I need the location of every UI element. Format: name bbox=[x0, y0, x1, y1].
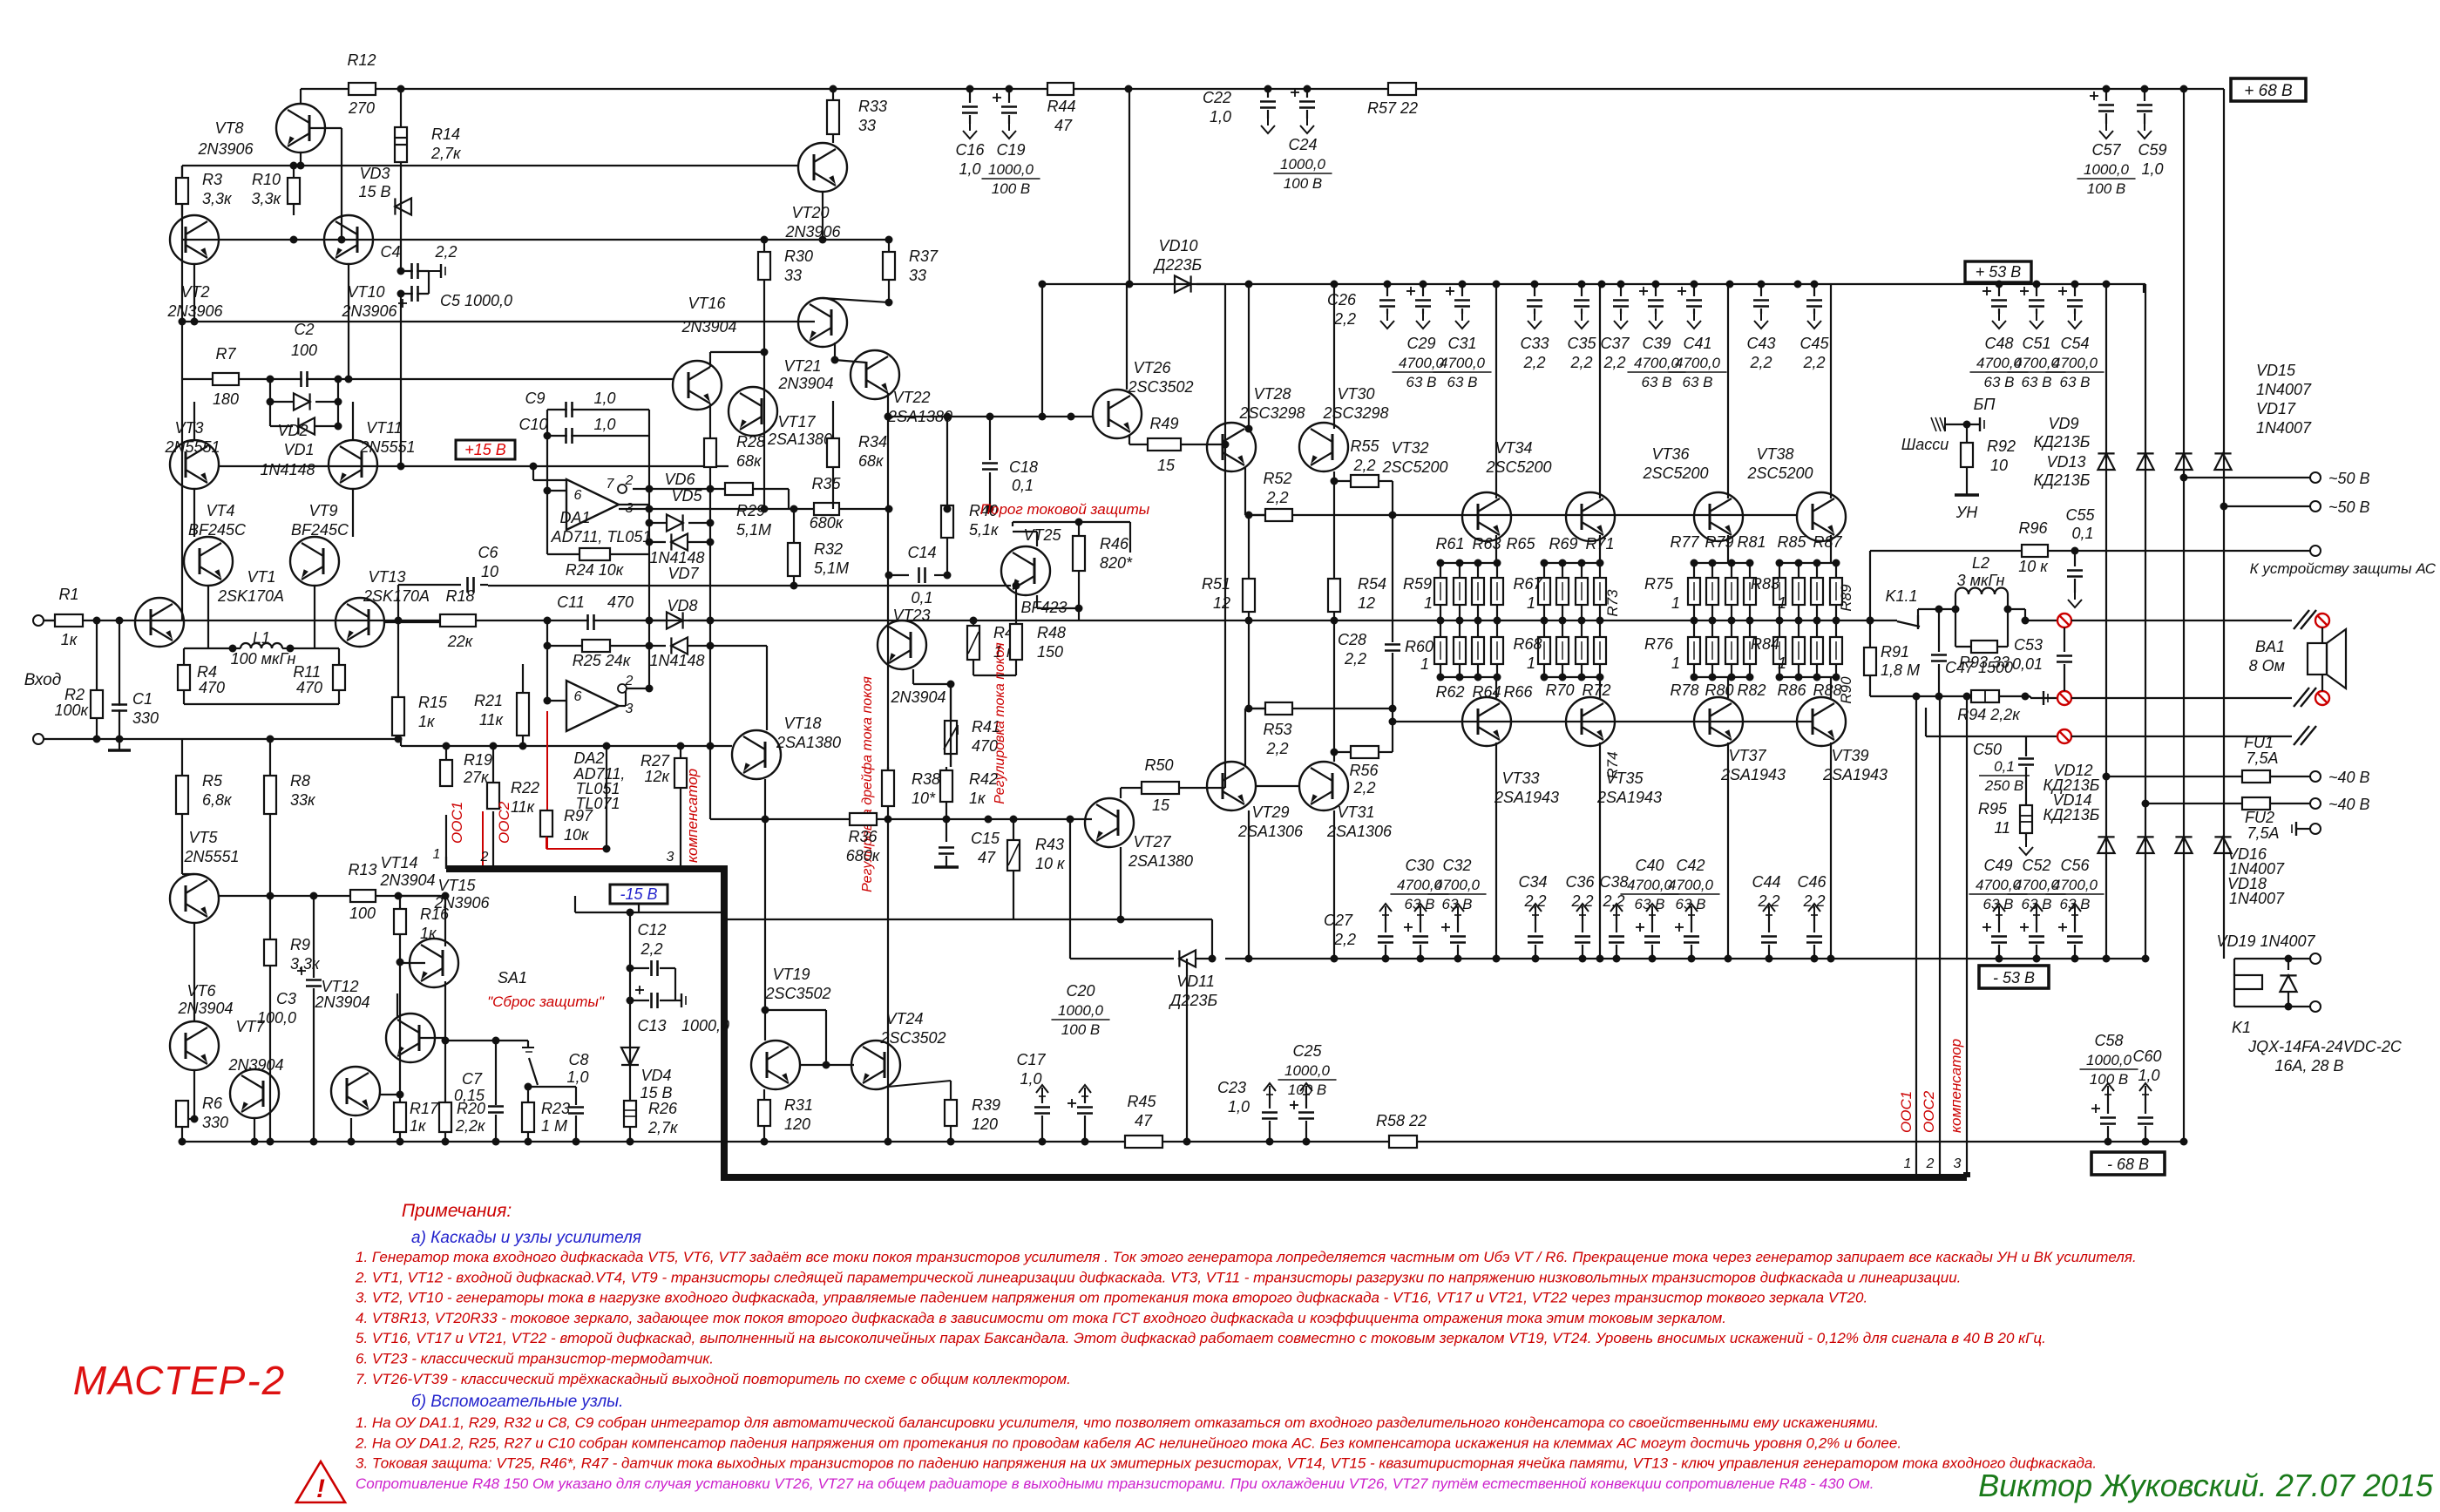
svg-text:C28: C28 bbox=[1338, 631, 1366, 648]
wire x1362 col bbox=[1186, 959, 1188, 1142]
wire x2462 top bbox=[2144, 283, 2145, 285]
transistor VT34 bbox=[1566, 492, 1615, 541]
wire OOC2 right line bbox=[1939, 696, 1941, 1177]
svg-text:R44: R44 bbox=[1047, 98, 1075, 115]
svg-text:1: 1 bbox=[1904, 1156, 1912, 1171]
resistor R96 bbox=[2022, 545, 2048, 557]
svg-text:VD15: VD15 bbox=[2256, 362, 2296, 379]
wire VT18 up bbox=[766, 646, 768, 730]
svg-text:VT7: VT7 bbox=[235, 1018, 265, 1035]
resistor R37 bbox=[888, 240, 890, 252]
svg-text:C41: C41 bbox=[1683, 335, 1711, 352]
svg-text:C35: C35 bbox=[1567, 335, 1596, 352]
svg-text:VD8: VD8 bbox=[667, 597, 697, 614]
svg-text:R4: R4 bbox=[197, 663, 217, 681]
svg-text:27к: 27к bbox=[463, 769, 490, 786]
transistor VT2 bbox=[170, 215, 219, 264]
junction bank 11 bbox=[1746, 559, 1754, 567]
wire VT35 emitter bbox=[1599, 677, 1601, 698]
svg-text:L2: L2 bbox=[1972, 554, 1989, 572]
junction top right bbox=[2180, 85, 2188, 93]
svg-text:VT29: VT29 bbox=[1251, 803, 1289, 821]
red wire R22 bbox=[482, 811, 484, 868]
switch SA1 bbox=[527, 1041, 529, 1047]
resistor bank top 7 bbox=[1599, 563, 1601, 578]
wire R3 to VT2 bbox=[181, 204, 183, 215]
capacitor C20 electrolytic bbox=[1084, 1088, 1086, 1096]
svg-text:C7: C7 bbox=[462, 1070, 483, 1088]
wire VT8 emitter down bbox=[300, 153, 302, 166]
svg-text:а) Каскады и узлы усилителя: а) Каскады и узлы усилителя bbox=[411, 1229, 641, 1247]
resistor R7 bbox=[213, 373, 239, 385]
svg-text:C8: C8 bbox=[568, 1051, 588, 1068]
transistor VT12 bbox=[331, 1067, 380, 1115]
capacitor C45 bbox=[1813, 284, 1815, 296]
wire VT8 base right bbox=[309, 127, 342, 129]
transistor VT23 bbox=[878, 620, 926, 669]
capacitor C51 electrolytic bbox=[2036, 284, 2037, 296]
wire VT17 down bbox=[763, 440, 765, 509]
svg-text:2SA1943: 2SA1943 bbox=[1822, 766, 1888, 783]
svg-text:330: 330 bbox=[202, 1114, 228, 1131]
svg-text:10: 10 bbox=[1990, 457, 2008, 474]
diode VD-pair lower bbox=[269, 402, 271, 426]
transistor VT16 bbox=[673, 361, 722, 410]
ground input terminal bbox=[33, 734, 44, 744]
svg-text:VT19: VT19 bbox=[772, 966, 810, 983]
resistor bank top 12 bbox=[1779, 563, 1780, 578]
svg-text:КД213Б: КД213Б bbox=[2033, 471, 2090, 489]
svg-text:2N3906: 2N3906 bbox=[341, 302, 397, 320]
capacitor C28 bbox=[1392, 515, 1393, 642]
svg-text:VT13: VT13 bbox=[368, 568, 405, 586]
svg-text:1к: 1к bbox=[418, 713, 436, 730]
capacitor C43 bbox=[1760, 284, 1762, 296]
capacitor C30 electrolytic bbox=[1420, 906, 1421, 915]
transistor VT35 bbox=[1566, 697, 1615, 746]
svg-text:R10: R10 bbox=[252, 171, 281, 188]
wire C6 rail y672 bbox=[487, 585, 489, 586]
chassis symbol bbox=[1945, 424, 1967, 425]
svg-text:63 В: 63 В bbox=[2060, 374, 2091, 390]
wire VT9-VT13 link bbox=[314, 586, 315, 648]
label -53V box bbox=[1979, 966, 2049, 988]
resistor R38 bbox=[882, 770, 894, 806]
svg-text:VT25: VT25 bbox=[1023, 526, 1061, 544]
svg-text:2,2: 2,2 bbox=[1570, 892, 1593, 910]
svg-text:2. VT1, VT12 - входной дифкаск: 2. VT1, VT12 - входной дифкаскад.VT4, VT… bbox=[355, 1269, 1961, 1285]
svg-text:1: 1 bbox=[1671, 654, 1680, 672]
transistor VT26 bbox=[1093, 390, 1142, 438]
svg-text:2SC3502: 2SC3502 bbox=[1127, 378, 1193, 396]
resistor R49 bbox=[1128, 435, 1130, 444]
resistor R4 bbox=[183, 648, 185, 665]
wire VT19 emitter bbox=[763, 1089, 765, 1100]
svg-text:120: 120 bbox=[972, 1115, 998, 1133]
svg-text:1N4007: 1N4007 bbox=[2256, 381, 2312, 398]
svg-text:100: 100 bbox=[291, 342, 317, 359]
svg-text:R18: R18 bbox=[445, 587, 474, 605]
wire x1087 col bbox=[946, 417, 948, 505]
svg-text:2,2: 2,2 bbox=[1344, 650, 1366, 668]
transistor VT13 fet bbox=[335, 598, 384, 647]
svg-text:C6: C6 bbox=[478, 544, 498, 561]
svg-text:C34: C34 bbox=[1518, 873, 1547, 891]
svg-text:2,2: 2,2 bbox=[1522, 354, 1545, 371]
resistor R57 bbox=[1388, 83, 1416, 95]
wire R35 right bbox=[839, 508, 889, 510]
svg-text:2SC3502: 2SC3502 bbox=[879, 1029, 945, 1047]
svg-text:1000,0: 1000,0 bbox=[2086, 1052, 2132, 1068]
svg-text:!: ! bbox=[316, 1475, 325, 1503]
wire x745 col bbox=[648, 410, 650, 688]
svg-text:R52: R52 bbox=[1263, 470, 1291, 487]
svg-text:C11: C11 bbox=[557, 593, 585, 611]
transistor VT15 bbox=[386, 1014, 435, 1062]
svg-text:1: 1 bbox=[1424, 594, 1433, 612]
wire VT10 down bbox=[348, 264, 349, 379]
resistor R44 bbox=[1047, 83, 1074, 95]
svg-text:VT38: VT38 bbox=[1756, 445, 1793, 463]
diode VD18b bbox=[2214, 837, 2231, 853]
svg-text:680к: 680к bbox=[810, 514, 844, 532]
svg-text:1000,0: 1000,0 bbox=[681, 1017, 729, 1034]
label +68V box bbox=[2231, 78, 2306, 101]
svg-text:33к: 33к bbox=[290, 791, 316, 809]
label UN bbox=[1966, 467, 1968, 495]
svg-text:R17: R17 bbox=[410, 1100, 439, 1117]
capacitor C2 bbox=[302, 371, 306, 387]
transistor VT17 bbox=[729, 387, 777, 436]
resistor R17 bbox=[394, 1102, 406, 1132]
label OOC1 red vertical bbox=[449, 802, 465, 844]
opamp DA1 bbox=[566, 479, 619, 530]
svg-text:R74: R74 bbox=[1604, 751, 1621, 778]
wire x1391 col bbox=[1211, 919, 1213, 959]
svg-text:2,7к: 2,7к bbox=[647, 1119, 679, 1136]
svg-text:C24: C24 bbox=[1288, 136, 1317, 153]
svg-text:0,15: 0,15 bbox=[454, 1087, 485, 1104]
diode VD4 bbox=[621, 1048, 639, 1065]
svg-text:R38: R38 bbox=[912, 770, 940, 788]
capacitor C5 electrolytic bbox=[401, 293, 429, 295]
red vertical text drift bbox=[860, 676, 875, 892]
wire OOC1 right line bbox=[1915, 696, 1917, 1177]
svg-text:3: 3 bbox=[1954, 1156, 1962, 1171]
wire VT6 down bbox=[193, 1070, 195, 1119]
resistor bank bottom 9 bbox=[1711, 620, 1713, 637]
svg-text:2SC3502: 2SC3502 bbox=[764, 985, 830, 1002]
svg-text:C45: C45 bbox=[1799, 335, 1829, 352]
capacitor C47 bbox=[1938, 609, 1940, 652]
wire +53 to caps bbox=[1245, 281, 1253, 288]
svg-text:3,3к: 3,3к bbox=[202, 190, 233, 207]
svg-text:R34: R34 bbox=[858, 433, 887, 451]
svg-text:VT16: VT16 bbox=[688, 295, 726, 312]
resistor R19 bbox=[445, 746, 447, 760]
wire VT11 up bbox=[352, 402, 354, 440]
svg-text:VT9: VT9 bbox=[308, 502, 337, 519]
svg-text:R26: R26 bbox=[648, 1100, 678, 1117]
svg-text:3,3к: 3,3к bbox=[290, 955, 321, 973]
diode VD-pair upper bbox=[269, 379, 271, 402]
resistor R93 bbox=[1971, 641, 1997, 653]
svg-text:1,0: 1,0 bbox=[593, 416, 615, 433]
svg-text:R32: R32 bbox=[814, 540, 843, 558]
svg-text:R83: R83 bbox=[1751, 575, 1779, 593]
wire VT22 down bbox=[887, 393, 889, 509]
resistor R32 bbox=[793, 509, 795, 543]
svg-text:VT23: VT23 bbox=[892, 607, 930, 624]
svg-text:R12: R12 bbox=[347, 51, 376, 69]
resistor R3 bbox=[181, 166, 183, 178]
svg-text:1. Генератор тока входного диф: 1. Генератор тока входного дифкаскада VT… bbox=[356, 1249, 2137, 1265]
svg-text:330: 330 bbox=[132, 709, 159, 727]
svg-text:1N4148: 1N4148 bbox=[649, 652, 704, 669]
svg-text:1,0: 1,0 bbox=[1020, 1070, 1041, 1088]
svg-text:C3: C3 bbox=[276, 990, 296, 1007]
svg-text:-15 В: -15 В bbox=[620, 885, 657, 903]
svg-text:R63: R63 bbox=[1472, 535, 1501, 553]
svg-text:4700,0: 4700,0 bbox=[1399, 355, 1445, 371]
svg-text:C5 1000,0: C5 1000,0 bbox=[440, 292, 512, 309]
wire emitter res bottom y772b bbox=[1541, 676, 1602, 678]
svg-text:2,2: 2,2 bbox=[640, 940, 662, 958]
ground stub C53 bbox=[2024, 697, 2026, 699]
resistor R45 bbox=[1125, 1136, 1162, 1148]
svg-text:2,2: 2,2 bbox=[1352, 457, 1375, 474]
resistor R95 bbox=[2020, 805, 2032, 833]
wire rail478 bbox=[888, 416, 1093, 417]
ground stub bbox=[119, 739, 120, 749]
diode VD11 bbox=[1069, 819, 1071, 959]
ground terminal right bbox=[2295, 822, 2297, 836]
svg-text:R24 10к: R24 10к bbox=[566, 561, 625, 579]
svg-text:2N3906: 2N3906 bbox=[197, 140, 254, 158]
opamp DA2 bbox=[566, 681, 619, 731]
resistor R34 bbox=[827, 438, 839, 467]
svg-text:0,01: 0,01 bbox=[2012, 655, 2043, 673]
svg-text:+ 68 В: + 68 В bbox=[2244, 82, 2293, 100]
svg-text:R86: R86 bbox=[1777, 681, 1806, 699]
svg-text:VT28: VT28 bbox=[1253, 385, 1291, 403]
svg-text:R62: R62 bbox=[1435, 683, 1464, 701]
junction y1028 bbox=[310, 892, 318, 900]
svg-text:R56: R56 bbox=[1349, 762, 1379, 779]
svg-text:C33: C33 bbox=[1520, 335, 1549, 352]
svg-text:250 В: 250 В bbox=[1984, 777, 2023, 794]
speaker BA1 bbox=[2308, 643, 2327, 675]
wire VT2 down bbox=[193, 264, 195, 322]
wire VT30 down bbox=[1333, 471, 1335, 481]
svg-text:R25 24к: R25 24к bbox=[573, 652, 632, 669]
capacitor C24 electrolytic bbox=[1306, 89, 1308, 98]
capacitor C25 electrolytic bbox=[1305, 1086, 1307, 1095]
svg-text:VD13: VD13 bbox=[2046, 453, 2085, 471]
capacitor C18 bbox=[982, 464, 998, 468]
svg-text:R73: R73 bbox=[1604, 589, 1621, 617]
resistor R48 bbox=[1010, 624, 1022, 660]
svg-text:10 к: 10 к bbox=[1035, 855, 1066, 872]
wire VT28 up bbox=[1248, 284, 1250, 429]
svg-text:R51: R51 bbox=[1202, 575, 1230, 593]
svg-text:1: 1 bbox=[1527, 594, 1535, 612]
resistor R50 bbox=[1120, 788, 1122, 798]
svg-text:VT36: VT36 bbox=[1651, 445, 1690, 463]
svg-text:AD711, TL051: AD711, TL051 bbox=[551, 528, 652, 546]
svg-text:2SC5200: 2SC5200 bbox=[1381, 458, 1447, 476]
wire R47R48 bottom bbox=[973, 660, 974, 675]
wire VT38 collector bbox=[1830, 284, 1832, 498]
svg-text:- 53 В: - 53 В bbox=[1993, 969, 2035, 987]
svg-text:270: 270 bbox=[348, 99, 375, 117]
svg-text:2,2: 2,2 bbox=[1602, 892, 1624, 910]
svg-text:компенсатор: компенсатор bbox=[1948, 1039, 1964, 1133]
svg-text:VT17: VT17 bbox=[777, 413, 816, 431]
resistor R51 bbox=[1248, 515, 1250, 579]
svg-text:R76: R76 bbox=[1644, 635, 1674, 653]
svg-text:Примечания:: Примечания: bbox=[402, 1201, 512, 1221]
svg-text:5,1к: 5,1к bbox=[969, 521, 1000, 539]
svg-text:R68: R68 bbox=[1513, 635, 1542, 653]
svg-text:УН: УН bbox=[1955, 504, 1979, 521]
resistor bank bottom 3 bbox=[1496, 620, 1498, 637]
svg-text:2N3904: 2N3904 bbox=[314, 993, 369, 1011]
svg-text:68к: 68к bbox=[736, 452, 762, 470]
svg-text:R39: R39 bbox=[972, 1096, 1000, 1114]
svg-text:2. На ОУ DA1.2, R25, R27 и C10: 2. На ОУ DA1.2, R25, R27 и C10 собран ко… bbox=[355, 1434, 1901, 1451]
junction C11 bbox=[544, 617, 552, 625]
svg-text:VD1: VD1 bbox=[283, 441, 314, 458]
capacitor C7 bbox=[495, 1041, 497, 1105]
svg-text:VT21: VT21 bbox=[783, 357, 821, 375]
svg-text:15 В: 15 В bbox=[640, 1084, 672, 1102]
wire sense3 line bbox=[1926, 736, 2057, 737]
capacitor C3 electrolytic bbox=[313, 896, 315, 978]
resistor R15 bbox=[397, 620, 399, 697]
svg-text:Виктор Жуковский. 27.07 2015: Виктор Жуковский. 27.07 2015 bbox=[1978, 1468, 2434, 1503]
svg-text:2,2: 2,2 bbox=[1333, 931, 1356, 948]
wire VT19-24 bases bbox=[764, 1010, 766, 1041]
resistor bank top 4 bbox=[1543, 563, 1545, 578]
svg-text:4700,0: 4700,0 bbox=[1434, 877, 1481, 893]
svg-text:C30: C30 bbox=[1405, 857, 1433, 874]
svg-text:1000,0: 1000,0 bbox=[2084, 161, 2130, 178]
svg-text:470: 470 bbox=[199, 679, 225, 696]
wire VT14 up bbox=[444, 896, 446, 946]
svg-text:R13: R13 bbox=[348, 861, 376, 878]
svg-text:63 В: 63 В bbox=[1984, 374, 2015, 390]
svg-text:C55: C55 bbox=[2065, 506, 2095, 524]
wire R8 down bbox=[269, 814, 271, 896]
svg-text:68к: 68к bbox=[858, 452, 884, 470]
wire R28 down bbox=[709, 467, 711, 489]
wire VT30 up bbox=[1333, 284, 1335, 429]
svg-text:R75: R75 bbox=[1644, 575, 1674, 593]
svg-text:R87: R87 bbox=[1813, 533, 1842, 551]
svg-text:1N4148: 1N4148 bbox=[649, 549, 704, 566]
svg-text:1 М: 1 М bbox=[541, 1117, 567, 1135]
junction input bbox=[93, 617, 101, 625]
svg-text:1N4148: 1N4148 bbox=[260, 461, 315, 478]
wire R9 down bbox=[269, 966, 271, 1142]
svg-text:VT3: VT3 bbox=[174, 419, 203, 437]
svg-text:R60: R60 bbox=[1405, 638, 1433, 655]
svg-text:ООС1: ООС1 bbox=[449, 802, 465, 844]
wire rail1055 bbox=[724, 919, 1212, 920]
svg-text:33: 33 bbox=[784, 267, 802, 284]
svg-text:C12: C12 bbox=[637, 921, 666, 939]
resistor R55 bbox=[1351, 475, 1379, 487]
capacitor C11 bbox=[589, 614, 593, 630]
svg-text:100 В: 100 В bbox=[1061, 1021, 1100, 1038]
svg-text:VT12: VT12 bbox=[321, 978, 358, 995]
svg-text:2N3904: 2N3904 bbox=[681, 318, 736, 336]
ground C13 bbox=[675, 1000, 681, 1001]
svg-text:3. Токовая защита: VT25, R46*,: 3. Токовая защита: VT25, R46*, R47 - дат… bbox=[356, 1455, 2097, 1472]
svg-text:2SC5200: 2SC5200 bbox=[1642, 464, 1708, 482]
svg-text:4700,0: 4700,0 bbox=[1675, 355, 1721, 371]
svg-text:2N5551: 2N5551 bbox=[359, 438, 415, 456]
svg-text:2SK170A: 2SK170A bbox=[217, 587, 284, 605]
svg-text:63 В: 63 В bbox=[1676, 896, 1706, 912]
svg-text:компенсатор: компенсатор bbox=[684, 769, 701, 863]
svg-text:12к: 12к bbox=[644, 768, 670, 785]
svg-text:R66: R66 bbox=[1503, 683, 1533, 701]
wire C6 left bbox=[397, 585, 399, 620]
svg-text:4700,0: 4700,0 bbox=[2052, 355, 2098, 371]
capacitor C37 bbox=[1620, 284, 1622, 296]
svg-text:DA2: DA2 bbox=[573, 749, 604, 767]
svg-text:C47 1500: C47 1500 bbox=[1945, 659, 2013, 676]
capacitor C17 bbox=[1041, 1088, 1043, 1096]
svg-text:4700,0: 4700,0 bbox=[2052, 877, 2098, 893]
wire DA1 power bbox=[532, 466, 534, 480]
svg-text:16А, 28 В: 16А, 28 В bbox=[2274, 1057, 2343, 1075]
resistor bank top 14 bbox=[1816, 563, 1818, 578]
svg-text:4700,0: 4700,0 bbox=[1634, 355, 1680, 371]
transistor VT38 bbox=[1797, 492, 1846, 541]
svg-text:R92: R92 bbox=[1987, 437, 2016, 455]
capacitor C54 electrolytic bbox=[2074, 284, 2076, 296]
junction ground line bbox=[93, 736, 101, 743]
svg-text:5. VT16, VT17 и VT21, VT22 - в: 5. VT16, VT17 и VT21, VT22 - второй дифк… bbox=[356, 1330, 2046, 1346]
wire x460 col bbox=[400, 294, 402, 466]
junction bank 13 bbox=[1795, 559, 1803, 567]
transistor VT33 bbox=[1462, 697, 1511, 746]
junction bank 8 bbox=[1691, 559, 1698, 567]
resistor R1 bbox=[44, 620, 55, 621]
svg-text:2,2: 2,2 bbox=[1757, 892, 1779, 910]
wire top right corner bbox=[2223, 89, 2225, 98]
svg-text:63 В: 63 В bbox=[2022, 896, 2052, 912]
svg-text:R7: R7 bbox=[215, 345, 236, 363]
resistor R26 bbox=[624, 1101, 636, 1127]
svg-text:C57: C57 bbox=[2091, 141, 2121, 159]
resistor R27 bbox=[674, 758, 687, 788]
junction +15 rail bbox=[397, 463, 405, 471]
svg-text:100 В: 100 В bbox=[1284, 175, 1322, 192]
wire VT16 base rail y435 bbox=[182, 378, 673, 380]
wire VT25 base bbox=[1036, 532, 1038, 546]
wire VT13 gate right bbox=[384, 621, 440, 623]
wire DA1 pin2 line bbox=[633, 488, 649, 490]
svg-text:R81: R81 bbox=[1737, 533, 1766, 551]
svg-text:DA1: DA1 bbox=[559, 509, 590, 526]
wire left input column x137 bbox=[119, 620, 120, 739]
label OOC1 right bbox=[1898, 1091, 1915, 1133]
wire relay wiring bbox=[2222, 958, 2224, 959]
